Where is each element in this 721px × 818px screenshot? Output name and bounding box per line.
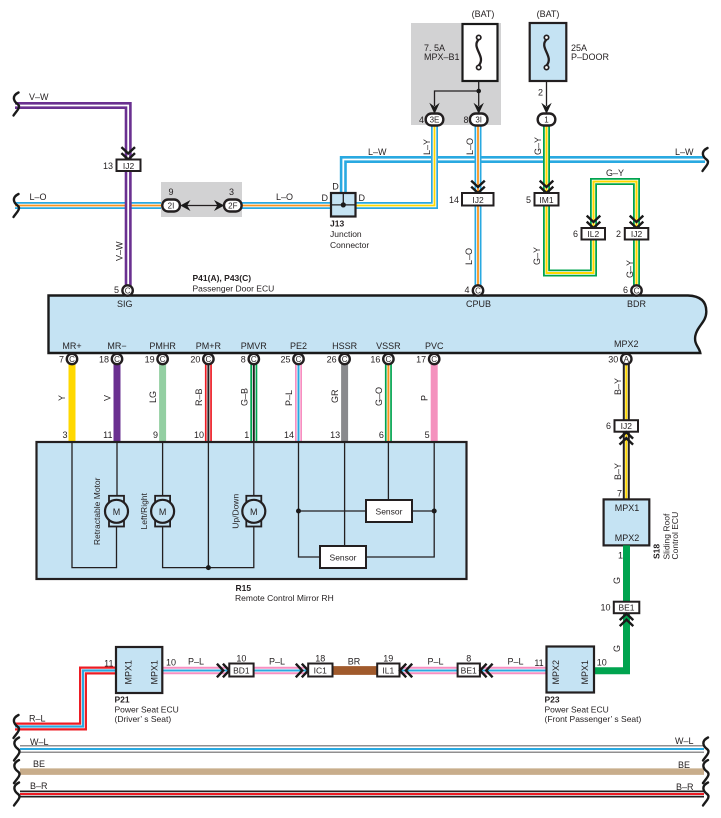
svg-text:1: 1 bbox=[618, 551, 623, 561]
svg-text:PE2: PE2 bbox=[290, 341, 307, 351]
junction connector J13 bbox=[331, 193, 356, 217]
sensor 2 bbox=[320, 546, 366, 568]
svg-text:Up/Down: Up/Down bbox=[230, 494, 240, 529]
svg-text:GR: GR bbox=[330, 389, 340, 403]
svg-text:G: G bbox=[612, 577, 622, 584]
svg-text:MPX2: MPX2 bbox=[615, 533, 640, 543]
svg-text:Y: Y bbox=[57, 395, 67, 401]
squiggle R-L bbox=[14, 715, 19, 738]
svg-text:L–Y: L–Y bbox=[422, 139, 432, 155]
squiggle B-R left bbox=[14, 783, 19, 806]
svg-text:MPX1: MPX1 bbox=[615, 503, 640, 513]
svg-text:HSSR: HSSR bbox=[332, 341, 358, 351]
svg-text:B–Y: B–Y bbox=[613, 463, 623, 480]
connector box 18 IC1 bbox=[308, 654, 332, 677]
svg-text:25: 25 bbox=[280, 355, 290, 365]
svg-text:MPX1: MPX1 bbox=[124, 660, 134, 685]
pin 26 HSSR bbox=[339, 354, 349, 364]
gray panel 2I/2F bbox=[161, 182, 242, 217]
svg-text:IJ2: IJ2 bbox=[472, 195, 484, 205]
svg-text:MR−: MR− bbox=[107, 341, 126, 351]
svg-text:10: 10 bbox=[600, 603, 610, 613]
svg-text:J13: J13 bbox=[330, 219, 344, 229]
svg-text:L–O: L–O bbox=[465, 138, 475, 155]
svg-text:13: 13 bbox=[330, 430, 340, 440]
svg-text:(Front Passenger’ s Seat): (Front Passenger’ s Seat) bbox=[545, 714, 642, 724]
oval 2F bbox=[224, 200, 242, 212]
svg-text:Connector: Connector bbox=[330, 240, 369, 250]
svg-text:Power Seat ECU: Power Seat ECU bbox=[115, 704, 179, 714]
svg-text:6: 6 bbox=[379, 430, 384, 440]
svg-text:6: 6 bbox=[573, 229, 578, 239]
svg-text:BR: BR bbox=[348, 657, 361, 667]
svg-text:P–L: P–L bbox=[284, 390, 294, 406]
svg-text:M: M bbox=[250, 507, 258, 517]
svg-text:P21: P21 bbox=[115, 695, 130, 705]
connector box 8 BE1 bbox=[458, 654, 480, 677]
internal wire pin10 bbox=[207, 443, 209, 568]
connector box 6 IJ2 on B-Y bbox=[606, 420, 638, 432]
oval 2I bbox=[162, 200, 180, 212]
internal wire sensor1 right bbox=[412, 510, 434, 512]
svg-text:8: 8 bbox=[241, 355, 246, 365]
svg-text:13: 13 bbox=[103, 161, 113, 171]
squiggle L-O bbox=[14, 194, 19, 217]
svg-text:20: 20 bbox=[190, 355, 200, 365]
fuse MPX-B1 bbox=[463, 24, 498, 81]
svg-text:1: 1 bbox=[244, 430, 249, 440]
pin 16 VSSR bbox=[383, 354, 393, 364]
svg-text:BE: BE bbox=[678, 760, 690, 770]
squiggle W-L left bbox=[14, 738, 19, 761]
svg-text:Remote Control Mirror RH: Remote Control Mirror RH bbox=[235, 593, 334, 603]
fuse P-DOOR bbox=[530, 23, 567, 81]
svg-text:BE1: BE1 bbox=[618, 603, 634, 613]
svg-text:C: C bbox=[296, 355, 302, 364]
internal wire pin14 down bbox=[299, 443, 321, 558]
wire P PVC bbox=[431, 364, 438, 442]
svg-text:16: 16 bbox=[370, 355, 380, 365]
svg-text:18: 18 bbox=[315, 654, 325, 664]
junction dot pin5 bbox=[432, 509, 437, 514]
wire G-Y from IJ2 to BDR bbox=[633, 238, 640, 286]
svg-text:3I: 3I bbox=[475, 116, 482, 125]
svg-text:P–L: P–L bbox=[507, 657, 523, 667]
pin 17 PVC bbox=[429, 354, 439, 364]
chevron below 10 BE1 pointing up bbox=[620, 614, 634, 626]
svg-text:8: 8 bbox=[463, 115, 468, 125]
svg-text:Control ECU: Control ECU bbox=[670, 512, 680, 560]
svg-text:P: P bbox=[420, 395, 430, 401]
Sliding Roof Control ECU S18 bbox=[604, 499, 650, 545]
svg-text:SIG: SIG bbox=[117, 299, 133, 309]
svg-text:CPUB: CPUB bbox=[466, 299, 491, 309]
svg-text:PVC: PVC bbox=[425, 341, 444, 351]
junction dot fuse bbox=[476, 89, 481, 94]
svg-text:(Driver’ s Seat): (Driver’ s Seat) bbox=[115, 714, 172, 724]
svg-text:IJ2: IJ2 bbox=[621, 421, 633, 431]
svg-text:7: 7 bbox=[59, 355, 64, 365]
svg-text:BD1: BD1 bbox=[233, 666, 250, 676]
svg-text:L–W: L–W bbox=[675, 147, 694, 157]
svg-text:Retractable Motor: Retractable Motor bbox=[92, 477, 102, 545]
svg-text:C: C bbox=[634, 287, 640, 296]
svg-text:C: C bbox=[251, 355, 257, 364]
svg-text:11: 11 bbox=[534, 658, 543, 668]
svg-text:11: 11 bbox=[104, 659, 113, 669]
squiggle L-W right bbox=[703, 148, 708, 171]
svg-text:IJ2: IJ2 bbox=[631, 229, 643, 239]
Power Seat ECU P23 bbox=[547, 647, 595, 693]
svg-text:IL2: IL2 bbox=[587, 229, 599, 239]
svg-text:PM+R: PM+R bbox=[196, 341, 222, 351]
wire L-O left bbox=[15, 202, 331, 209]
svg-text:P41(A), P43(C): P41(A), P43(C) bbox=[193, 273, 252, 283]
svg-text:W–L: W–L bbox=[30, 737, 49, 747]
pin 6 BDR bbox=[631, 285, 641, 295]
arrowhead to 1 bbox=[541, 103, 551, 114]
bus BE bbox=[20, 768, 704, 775]
pin 4 CPUB bbox=[473, 285, 483, 295]
connector box 5 IM1 bbox=[526, 193, 559, 206]
internal wire pin9 to motor2 top bbox=[162, 443, 164, 499]
svg-text:R–B: R–B bbox=[194, 388, 204, 406]
svg-text:C: C bbox=[342, 355, 348, 364]
svg-text:M: M bbox=[159, 507, 167, 517]
svg-text:MPX2: MPX2 bbox=[551, 660, 561, 685]
wire L-W bbox=[343, 160, 705, 194]
internal wire pin5 down bbox=[366, 443, 434, 558]
svg-text:19: 19 bbox=[145, 355, 155, 365]
svg-text:G: G bbox=[612, 645, 622, 652]
svg-text:C: C bbox=[431, 355, 437, 364]
svg-text:W–L: W–L bbox=[675, 736, 694, 746]
svg-text:P–L: P–L bbox=[188, 657, 204, 667]
svg-text:BE: BE bbox=[33, 759, 45, 769]
svg-text:BDR: BDR bbox=[627, 299, 647, 309]
svg-text:5: 5 bbox=[526, 195, 531, 205]
svg-text:10: 10 bbox=[166, 658, 176, 668]
svg-text:P–L: P–L bbox=[269, 657, 285, 667]
svg-text:5: 5 bbox=[114, 285, 119, 295]
squiggle V-W bbox=[14, 93, 19, 116]
svg-text:R–L: R–L bbox=[29, 714, 46, 724]
svg-text:V–W: V–W bbox=[114, 241, 124, 261]
svg-text:6: 6 bbox=[606, 421, 611, 431]
squiggle BE left bbox=[14, 760, 19, 783]
svg-text:(BAT): (BAT) bbox=[472, 9, 495, 19]
wire LG PMHR bbox=[159, 364, 166, 442]
squiggle BE right bbox=[703, 760, 708, 783]
svg-text:3: 3 bbox=[62, 430, 67, 440]
pin 25 PE2 bbox=[293, 354, 303, 364]
wire P-L IL1 to BE1 bbox=[400, 667, 458, 675]
chevron after BE1 pointing left bbox=[480, 664, 492, 678]
svg-text:4: 4 bbox=[419, 115, 424, 125]
oval 3I bbox=[470, 114, 488, 126]
svg-text:R15: R15 bbox=[236, 583, 252, 593]
svg-text:P–L: P–L bbox=[427, 657, 443, 667]
wire L-O from 3I to CPUB bbox=[475, 125, 482, 286]
svg-text:MPX1: MPX1 bbox=[580, 660, 590, 685]
svg-text:PMVR: PMVR bbox=[241, 341, 268, 351]
wire P-L BD1 to IC1 bbox=[254, 667, 309, 675]
svg-text:10: 10 bbox=[597, 658, 607, 668]
chevron above 14 IJ2 bbox=[471, 181, 485, 193]
svg-text:B–Y: B–Y bbox=[613, 378, 623, 395]
arrowhead to 3I bbox=[474, 103, 484, 114]
svg-text:PMHR: PMHR bbox=[149, 341, 176, 351]
svg-text:C: C bbox=[206, 355, 212, 364]
svg-text:8: 8 bbox=[466, 654, 471, 664]
svg-text:5: 5 bbox=[425, 430, 430, 440]
svg-text:B–R: B–R bbox=[676, 782, 694, 792]
connector box 10 BD1 bbox=[229, 654, 253, 677]
internal wire pin11 to motor1 top bbox=[116, 443, 118, 499]
svg-text:C: C bbox=[386, 355, 392, 364]
chevron below 6 IJ2 pointing up bbox=[620, 432, 634, 444]
Power Seat ECU P21 bbox=[116, 647, 162, 693]
svg-text:19: 19 bbox=[383, 654, 393, 664]
svg-text:10: 10 bbox=[236, 654, 246, 664]
bus B-R bbox=[20, 791, 704, 798]
internal wire pin3 to motor1 bottom bbox=[72, 443, 117, 568]
pin 7 MR+ bbox=[67, 354, 77, 364]
svg-text:P23: P23 bbox=[545, 695, 560, 705]
wire G-Y from IL2 to IJ2 bbox=[594, 182, 637, 229]
chevron on V-W above IJ2 bbox=[121, 147, 135, 159]
svg-text:MR+: MR+ bbox=[62, 341, 81, 351]
internal wire pin13 to sensor2 top bbox=[344, 443, 346, 547]
svg-text:4: 4 bbox=[464, 285, 469, 295]
svg-text:D: D bbox=[332, 182, 339, 192]
svg-text:9: 9 bbox=[168, 187, 173, 197]
svg-text:7: 7 bbox=[617, 489, 622, 499]
fuse lead wires bbox=[435, 81, 547, 106]
svg-text:11: 11 bbox=[103, 430, 112, 440]
bus W-L bbox=[20, 746, 704, 753]
oval 1 bbox=[538, 114, 556, 126]
svg-text:IJ2: IJ2 bbox=[123, 161, 135, 171]
wire G-Y from fuse 1 to IL2 bbox=[547, 125, 594, 273]
connector box 10 BE1 bbox=[600, 602, 639, 614]
svg-text:10: 10 bbox=[194, 430, 204, 440]
svg-text:S18: S18 bbox=[652, 544, 662, 559]
svg-text:V: V bbox=[103, 395, 113, 401]
svg-text:L–O: L–O bbox=[464, 248, 474, 265]
svg-text:2I: 2I bbox=[168, 202, 175, 211]
svg-text:C: C bbox=[475, 287, 481, 296]
svg-text:MPX2: MPX2 bbox=[614, 339, 639, 349]
svg-text:17: 17 bbox=[416, 355, 426, 365]
svg-text:MPX–B1: MPX–B1 bbox=[424, 52, 460, 62]
wire V MR- bbox=[114, 364, 121, 442]
R15 Remote Control Mirror RH box bbox=[37, 442, 467, 579]
connector box 6 IL2 bbox=[573, 228, 605, 240]
svg-text:9: 9 bbox=[153, 430, 158, 440]
pin 19 PMHR bbox=[157, 354, 167, 364]
wire P-L PE2 bbox=[295, 364, 302, 442]
arrow line between 2I and 2F bbox=[184, 205, 220, 207]
chevron before BD1 pointing right bbox=[217, 664, 229, 678]
sensor 1 bbox=[366, 500, 412, 522]
wire G from S18 to P23 bbox=[594, 545, 627, 670]
pin 30 MPX2 bbox=[621, 354, 631, 364]
internal wire sensor1 left bbox=[299, 510, 367, 512]
wire G-O VSSR bbox=[385, 364, 392, 442]
svg-text:30: 30 bbox=[608, 355, 618, 365]
svg-text:G–B: G–B bbox=[240, 388, 250, 406]
svg-text:2: 2 bbox=[616, 229, 621, 239]
internal wire motor2 bottom to motor3 bottom bbox=[163, 524, 254, 568]
svg-text:IC1: IC1 bbox=[314, 666, 328, 676]
junction dot pin10 bbox=[206, 565, 211, 570]
fuse panel MPX-B1 gray bbox=[411, 23, 501, 125]
squiggle W-L right bbox=[703, 738, 708, 761]
motor M2 left/right bbox=[151, 496, 174, 527]
svg-text:Sensor: Sensor bbox=[376, 506, 403, 516]
Passenger Door ECU box bbox=[49, 296, 707, 354]
svg-text:VSSR: VSSR bbox=[376, 341, 401, 351]
svg-text:26: 26 bbox=[327, 355, 337, 365]
motor M1 retractable bbox=[105, 496, 128, 527]
svg-text:2F: 2F bbox=[228, 202, 237, 211]
svg-text:IL1: IL1 bbox=[382, 666, 394, 676]
svg-text:IM1: IM1 bbox=[539, 195, 553, 205]
oval 3E bbox=[426, 114, 444, 126]
wire GR HSSR bbox=[341, 364, 348, 442]
connector box 19 IL1 bbox=[377, 654, 399, 677]
wire Y MR+ bbox=[69, 364, 76, 442]
svg-text:P–DOOR: P–DOOR bbox=[571, 52, 610, 62]
svg-text:LG: LG bbox=[148, 391, 158, 403]
svg-text:18: 18 bbox=[99, 355, 109, 365]
wire V-W bbox=[15, 106, 128, 287]
svg-text:L–O: L–O bbox=[276, 192, 293, 202]
svg-text:C: C bbox=[114, 355, 120, 364]
svg-text:G–Y: G–Y bbox=[533, 137, 543, 155]
svg-text:MPX1: MPX1 bbox=[150, 660, 160, 685]
wire B-Y MPX2 bbox=[623, 364, 630, 499]
svg-text:6: 6 bbox=[623, 285, 628, 295]
svg-text:L–O: L–O bbox=[30, 192, 47, 202]
pin 18 MR- bbox=[112, 354, 122, 364]
svg-text:14: 14 bbox=[449, 195, 459, 205]
pin 20 PM+R bbox=[203, 354, 213, 364]
pin 8 PMVR bbox=[249, 354, 259, 364]
svg-text:L–W: L–W bbox=[368, 147, 387, 157]
svg-text:C: C bbox=[125, 287, 131, 296]
pin 5 SIG bbox=[122, 285, 132, 295]
wire L-Y bbox=[356, 125, 435, 206]
svg-text:C: C bbox=[69, 355, 75, 364]
chevron above 2 IJ2 bbox=[630, 216, 644, 228]
svg-text:3: 3 bbox=[229, 187, 234, 197]
chevron after IL1 pointing left bbox=[400, 664, 412, 678]
svg-text:14: 14 bbox=[284, 430, 294, 440]
squiggle B-R right bbox=[703, 783, 708, 806]
svg-text:1: 1 bbox=[544, 116, 549, 125]
svg-text:V–W: V–W bbox=[29, 92, 49, 102]
wire P-L P21 to BD1 bbox=[162, 667, 229, 675]
svg-text:Passenger Door ECU: Passenger Door ECU bbox=[193, 284, 275, 294]
wire R-B PM+R bbox=[205, 364, 212, 442]
wire R-L from bus to P21 bbox=[15, 671, 116, 727]
arrowhead to 3E bbox=[429, 103, 439, 114]
svg-text:A: A bbox=[624, 355, 630, 364]
motor M3 up/down bbox=[242, 496, 265, 527]
svg-text:Left/Right: Left/Right bbox=[139, 492, 149, 529]
svg-text:Sensor: Sensor bbox=[330, 552, 357, 562]
internal wire pin6 to sensor1 top bbox=[387, 443, 389, 501]
wire BR IC1 to IL1 bbox=[333, 666, 378, 675]
svg-text:G–Y: G–Y bbox=[625, 260, 635, 278]
connector box 2 IJ2 bbox=[616, 228, 648, 240]
internal wire pin1 to motor3 top bbox=[253, 443, 255, 499]
chevron before IC1 pointing right bbox=[296, 664, 308, 678]
svg-text:C: C bbox=[160, 355, 166, 364]
svg-text:3E: 3E bbox=[430, 116, 440, 125]
svg-text:Junction: Junction bbox=[330, 229, 362, 239]
svg-text:D: D bbox=[359, 193, 366, 203]
svg-text:B–R: B–R bbox=[30, 781, 48, 791]
svg-text:BE1: BE1 bbox=[461, 666, 477, 676]
svg-text:(BAT): (BAT) bbox=[537, 9, 560, 19]
svg-text:G–Y: G–Y bbox=[606, 168, 624, 178]
svg-text:M: M bbox=[113, 507, 121, 517]
connector box 14 IJ2 bbox=[449, 193, 494, 206]
svg-text:2: 2 bbox=[538, 88, 543, 98]
wire G-B PMVR bbox=[250, 364, 257, 442]
junction dot pin14 bbox=[296, 509, 301, 514]
connector box 13 IJ2 bbox=[103, 160, 141, 172]
chevron above 5 IM1 bbox=[540, 181, 554, 193]
chevron above 6 IL2 bbox=[587, 216, 601, 228]
svg-text:D: D bbox=[322, 193, 329, 203]
svg-text:G–O: G–O bbox=[374, 387, 384, 406]
svg-text:G–Y: G–Y bbox=[532, 247, 542, 265]
svg-text:Power Seat ECU: Power Seat ECU bbox=[545, 704, 609, 714]
wire P-L BE1 to P23 bbox=[480, 667, 547, 675]
